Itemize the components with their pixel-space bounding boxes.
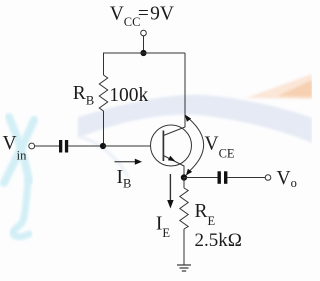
capacitor C2 [218, 171, 228, 184]
svg-text:2.5kΩ: 2.5kΩ [195, 230, 242, 251]
terminal Vin [29, 143, 35, 149]
wire C2 to Vo [227, 177, 265, 179]
wire RB bottom [103, 111, 105, 146]
wire RB top [103, 53, 105, 76]
arrow IB [115, 159, 143, 165]
wire C1 to base node [68, 145, 103, 147]
wire top rail [104, 52, 186, 54]
transistor Q1 [151, 125, 192, 166]
junction base node [100, 143, 106, 149]
wire Vin to C1 [35, 145, 59, 147]
wire emitter to node [183, 166, 185, 178]
wire collector [184, 53, 186, 127]
svg-text:100k: 100k [109, 85, 148, 106]
terminal Vo [265, 175, 271, 181]
arrow IE [167, 174, 173, 209]
wire base [104, 145, 151, 147]
wire emitter node to C2 [184, 177, 218, 179]
junction VCC node [140, 50, 146, 56]
wire RE bottom [183, 229, 185, 265]
terminal VCC [141, 30, 147, 36]
resistor RB [99, 75, 107, 111]
junction emitter node [181, 174, 187, 180]
ground [177, 265, 191, 271]
wire VCC stub [143, 36, 145, 53]
resistor RE [180, 188, 188, 229]
arc VCE [185, 115, 204, 176]
wire RE top [183, 178, 185, 189]
capacitor C1 [59, 140, 68, 153]
